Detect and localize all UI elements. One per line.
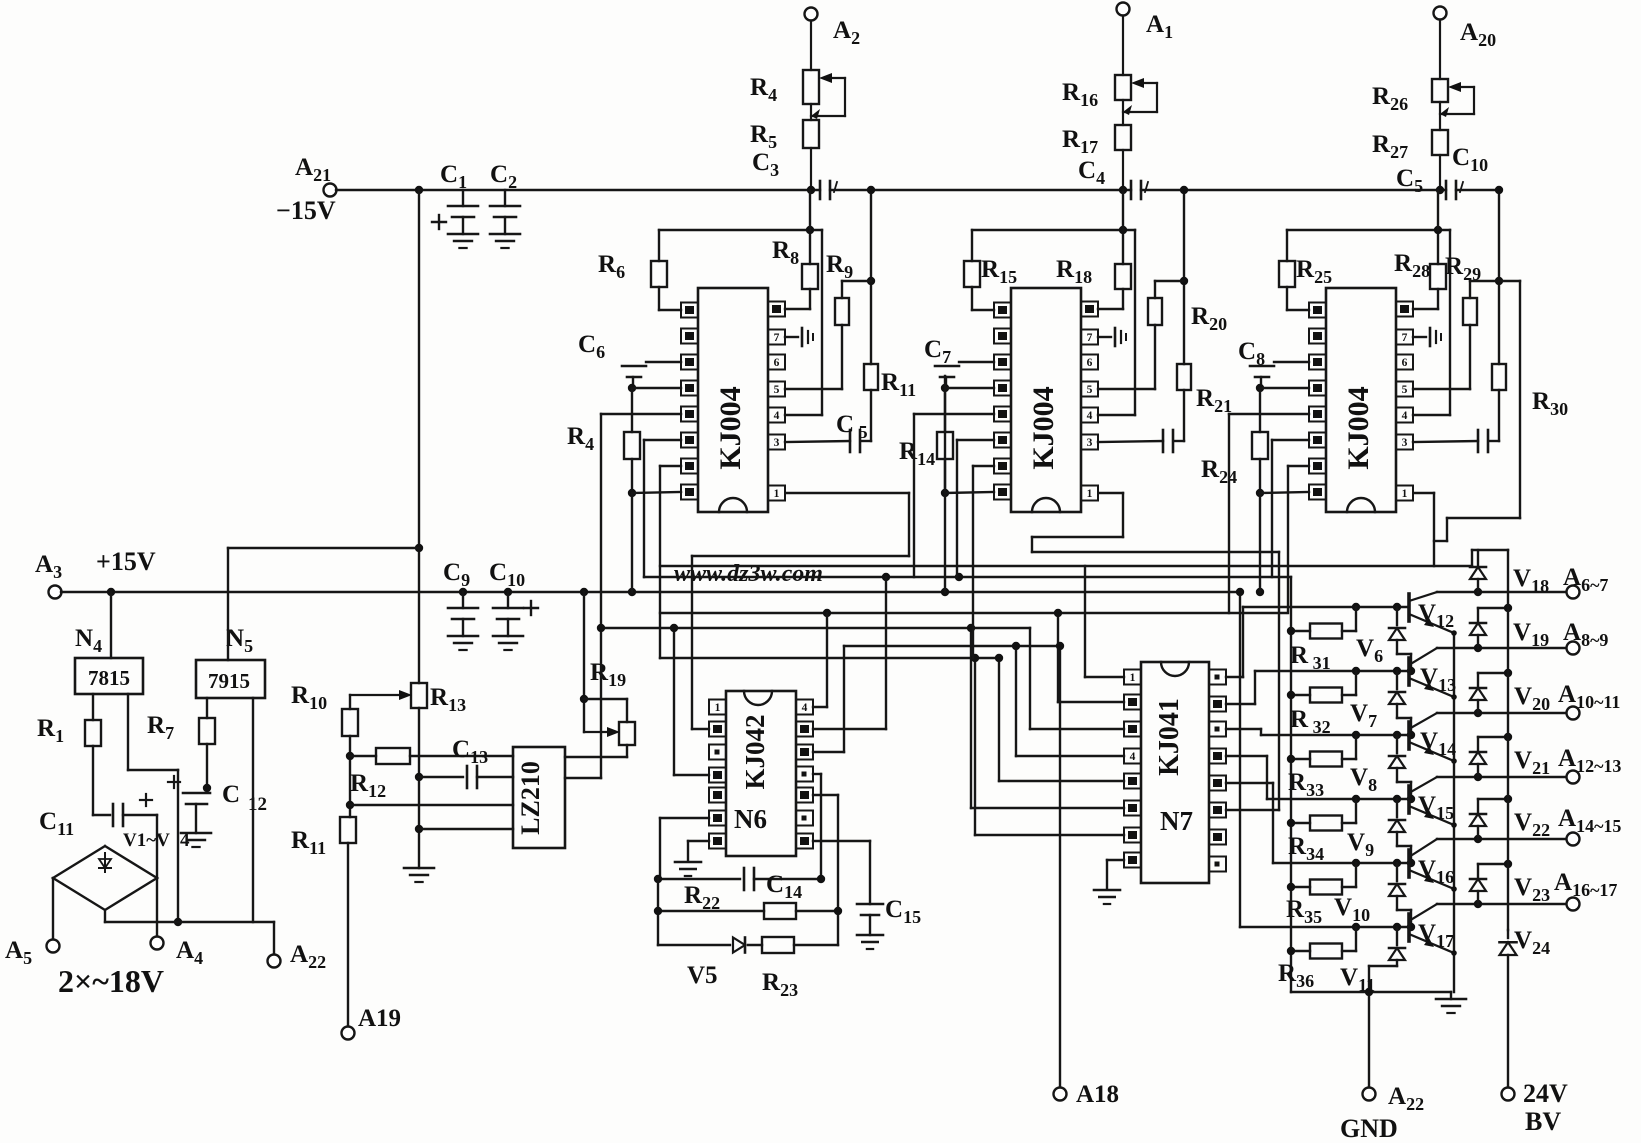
svg-text:1: 1 (1087, 488, 1093, 500)
svg-text:KJ041: KJ041 (1154, 698, 1185, 776)
svg-text:4: 4 (1402, 410, 1408, 422)
svg-text:C: C (222, 781, 240, 808)
svg-text:4: 4 (802, 702, 808, 714)
svg-text:5: 5 (774, 384, 780, 396)
svg-text:N7: N7 (1160, 806, 1193, 836)
svg-text:1: 1 (1402, 488, 1408, 500)
svg-text:1: 1 (1130, 672, 1136, 684)
svg-text:1: 1 (774, 488, 780, 500)
svg-text:6: 6 (774, 357, 780, 369)
svg-text:3: 3 (774, 437, 780, 449)
svg-text:V1~V: V1~V (123, 830, 170, 851)
svg-text:N6: N6 (734, 804, 767, 834)
svg-text:KJ004: KJ004 (1342, 386, 1375, 469)
svg-text:7915: 7915 (208, 669, 250, 693)
svg-text:6: 6 (1087, 357, 1093, 369)
svg-text:KJ004: KJ004 (1027, 386, 1060, 469)
svg-text:KJ004: KJ004 (714, 386, 747, 469)
svg-text:7: 7 (1402, 332, 1408, 344)
svg-text:6: 6 (1402, 357, 1408, 369)
svg-text:4: 4 (1130, 751, 1136, 763)
svg-text:LZ210: LZ210 (516, 761, 545, 835)
svg-text:7: 7 (1087, 332, 1093, 344)
svg-text:4: 4 (1087, 410, 1093, 422)
svg-text:7815: 7815 (88, 666, 130, 690)
svg-text:3: 3 (1087, 437, 1093, 449)
svg-text:4: 4 (774, 410, 780, 422)
svg-text:KJ042: KJ042 (740, 714, 770, 789)
svg-text:A19: A19 (358, 1005, 401, 1032)
svg-text:GND: GND (1340, 1114, 1398, 1143)
svg-text:+15V: +15V (96, 547, 156, 576)
svg-text:24V: 24V (1523, 1079, 1568, 1108)
svg-text:V5: V5 (687, 962, 718, 989)
svg-text:5: 5 (1087, 384, 1093, 396)
svg-text:12: 12 (248, 794, 267, 815)
svg-text:3: 3 (1402, 437, 1408, 449)
svg-text:7: 7 (774, 332, 780, 344)
svg-text:−15V: −15V (276, 196, 336, 225)
svg-text:5: 5 (1402, 384, 1408, 396)
svg-text:BV: BV (1525, 1107, 1561, 1136)
svg-text:A18: A18 (1076, 1081, 1119, 1108)
svg-text:2×~18V: 2×~18V (58, 963, 164, 999)
svg-text:1: 1 (715, 702, 721, 714)
